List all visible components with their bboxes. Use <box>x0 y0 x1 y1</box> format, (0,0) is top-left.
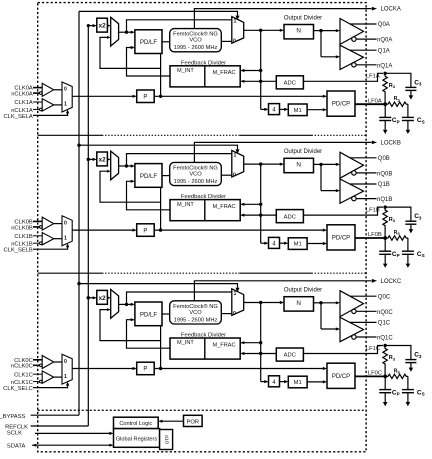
svg-text:LF0B: LF0B <box>368 232 382 238</box>
svg-text:R3: R3 <box>389 83 396 89</box>
svg-text:LOCKA: LOCKA <box>381 7 401 13</box>
svg-text:REFCLK: REFCLK <box>5 424 28 430</box>
svg-text:Output Divider: Output Divider <box>284 15 322 21</box>
svg-text:SDATA: SDATA <box>7 443 26 449</box>
svg-text:nQ0A: nQ0A <box>377 38 392 44</box>
svg-text:CLK1B: CLK1B <box>14 234 33 240</box>
svg-text:Q0C: Q0C <box>378 294 391 300</box>
svg-text:POR: POR <box>187 419 200 425</box>
svg-text:nCLK0B: nCLK0B <box>11 225 33 231</box>
svg-text:FemtoClock® NG: FemtoClock® NG <box>173 31 218 38</box>
svg-text:1: 1 <box>64 102 67 108</box>
svg-text:OTP: OTP <box>165 435 170 444</box>
svg-text:P: P <box>143 95 147 101</box>
svg-text:nQ0B: nQ0B <box>377 172 392 178</box>
svg-text:LF0C: LF0C <box>368 371 382 377</box>
svg-text:VCO: VCO <box>189 38 202 44</box>
svg-text:nQ1A: nQ1A <box>377 63 392 69</box>
svg-text:M_INT: M_INT <box>177 68 194 74</box>
svg-text:Q0B: Q0B <box>378 156 390 162</box>
svg-text:0: 0 <box>233 39 236 45</box>
svg-text:M1: M1 <box>294 108 302 114</box>
svg-text:x2: x2 <box>99 23 107 30</box>
svg-text:LF1A: LF1A <box>366 74 380 80</box>
svg-text:0: 0 <box>64 87 67 93</box>
svg-text:PD/CP: PD/CP <box>332 102 350 108</box>
svg-text:CLK_SELC: CLK_SELC <box>3 386 33 392</box>
svg-text:CLK1C: CLK1C <box>14 372 33 378</box>
svg-text:PD/LF: PD/LF <box>140 40 157 46</box>
svg-text:Q1B: Q1B <box>378 182 390 188</box>
svg-text:nQ1C: nQ1C <box>377 336 393 342</box>
svg-text:LOCKB: LOCKB <box>381 141 401 147</box>
svg-text:nCLK0C: nCLK0C <box>11 364 33 370</box>
svg-text:Global Registers: Global Registers <box>116 436 158 442</box>
svg-text:SCLK: SCLK <box>7 430 22 436</box>
svg-text:1995 - 2600 MHz: 1995 - 2600 MHz <box>174 45 218 51</box>
svg-text:LOCKC: LOCKC <box>381 279 402 285</box>
svg-text:nCLK0A: nCLK0A <box>11 92 33 98</box>
svg-text:nQ0C: nQ0C <box>377 310 393 316</box>
svg-text:N: N <box>296 28 301 35</box>
svg-text:L_BYPASS: L_BYPASS <box>0 414 26 420</box>
svg-text:nQ1B: nQ1B <box>377 197 392 203</box>
svg-text:Q1A: Q1A <box>378 48 390 54</box>
svg-text:LF1B: LF1B <box>366 208 380 214</box>
svg-text:Control Logic: Control Logic <box>119 421 152 427</box>
svg-text:1: 1 <box>233 19 236 25</box>
svg-text:CLK_SELA: CLK_SELA <box>3 114 32 120</box>
svg-text:LF1C: LF1C <box>366 346 380 352</box>
svg-text:CLK1A: CLK1A <box>14 100 33 106</box>
svg-text:LF0A: LF0A <box>368 98 382 104</box>
svg-text:ADC: ADC <box>284 81 296 87</box>
svg-text:Q1C: Q1C <box>378 321 391 327</box>
svg-text:Q0A: Q0A <box>378 22 390 28</box>
svg-text:CLK_SELB: CLK_SELB <box>3 248 32 254</box>
svg-text:M_FRAC: M_FRAC <box>213 70 236 76</box>
